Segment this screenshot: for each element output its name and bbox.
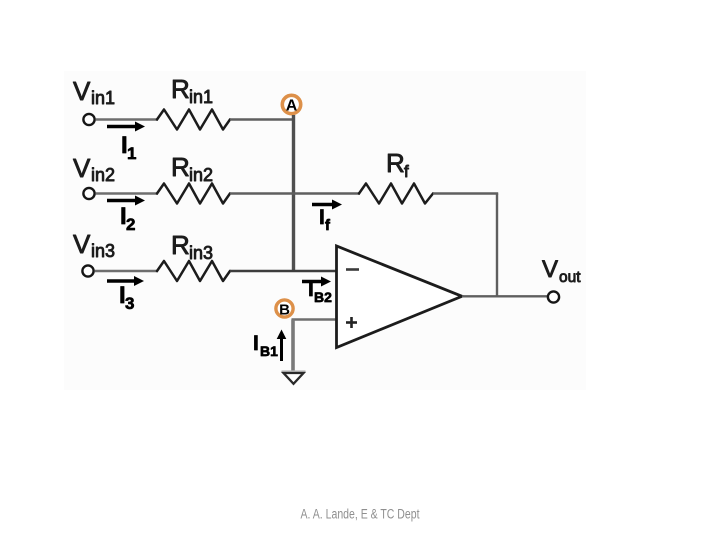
wire Vin1 to Rin1 — [96, 118, 159, 120]
svg-text:I: I — [308, 278, 314, 301]
terminal Vin2 — [83, 188, 94, 199]
label Vout — [542, 256, 581, 286]
svg-text:R: R — [171, 230, 190, 260]
svg-text:A. A. Lande, E & TC Dept: A. A. Lande, E & TC Dept — [301, 507, 420, 522]
wire Rin3 to op-amp inverting input — [230, 270, 338, 272]
resistor Rin2 — [157, 184, 230, 204]
label I2 — [120, 203, 135, 234]
svg-text:f: f — [404, 162, 409, 181]
svg-text:A: A — [286, 98, 298, 115]
bitmap background — [64, 71, 586, 390]
wire node B vertical to ground — [291, 320, 295, 372]
label If — [319, 206, 331, 234]
wire Rin2 to Rf — [230, 192, 360, 194]
label IB2 — [308, 278, 332, 305]
wire output — [462, 295, 548, 297]
wire feedback vertical — [496, 194, 498, 298]
svg-text:in3: in3 — [91, 241, 115, 261]
wire Rf to feedback corner — [433, 192, 498, 194]
label Rin2 — [171, 152, 213, 185]
wire op-amp noninverting input — [292, 318, 339, 321]
svg-text:B2: B2 — [314, 289, 332, 305]
node B — [276, 300, 293, 319]
svg-text:in2: in2 — [189, 165, 213, 185]
label I1 — [121, 132, 136, 163]
svg-text:in3: in3 — [189, 243, 213, 263]
svg-text:R: R — [171, 74, 190, 104]
svg-text:V: V — [73, 229, 91, 259]
arrow If — [312, 200, 342, 210]
arrow I3 — [107, 276, 144, 286]
svg-text:I: I — [319, 206, 325, 229]
svg-text:in1: in1 — [189, 87, 213, 107]
wire node A vertical — [292, 115, 295, 272]
svg-text:R: R — [171, 152, 190, 182]
svg-text:3: 3 — [125, 294, 134, 313]
svg-text:V: V — [542, 256, 558, 283]
arrow I1 — [107, 122, 145, 132]
svg-text:in1: in1 — [91, 88, 115, 108]
arrow I2 — [107, 196, 145, 206]
svg-text:B: B — [279, 302, 290, 319]
svg-text:2: 2 — [126, 215, 135, 234]
label IB1 — [253, 332, 278, 359]
resistor Rf — [359, 184, 433, 204]
label I3 — [119, 282, 134, 313]
ground — [282, 371, 306, 384]
svg-text:V: V — [73, 76, 91, 106]
label Vin3 — [73, 229, 115, 261]
wire Vin3 to Rin3 — [95, 270, 159, 272]
op-amp U1 — [337, 246, 463, 348]
terminal Vin1 — [83, 114, 94, 125]
svg-text:V: V — [73, 153, 91, 183]
terminal Vout — [548, 291, 559, 302]
label Vin1 — [73, 76, 115, 108]
node A — [282, 95, 300, 114]
label Rf — [386, 148, 409, 181]
arrow IB1 — [277, 330, 287, 362]
wire Vin2 to Rin2 — [96, 192, 159, 194]
svg-text:I: I — [253, 332, 259, 355]
svg-text:B1: B1 — [260, 343, 278, 359]
resistor Rin3 — [157, 261, 230, 281]
svg-text:R: R — [386, 148, 405, 178]
svg-text:1: 1 — [127, 144, 136, 163]
terminal Vin3 — [82, 265, 93, 276]
label Vin2 — [73, 153, 115, 185]
svg-text:in2: in2 — [91, 165, 115, 185]
label Rin3 — [171, 230, 213, 263]
resistor Rin1 — [157, 110, 230, 130]
arrow IB2 — [302, 277, 331, 287]
wire Rin1 to node A — [230, 118, 295, 120]
label Rin1 — [171, 74, 213, 107]
svg-text:out: out — [559, 269, 581, 286]
